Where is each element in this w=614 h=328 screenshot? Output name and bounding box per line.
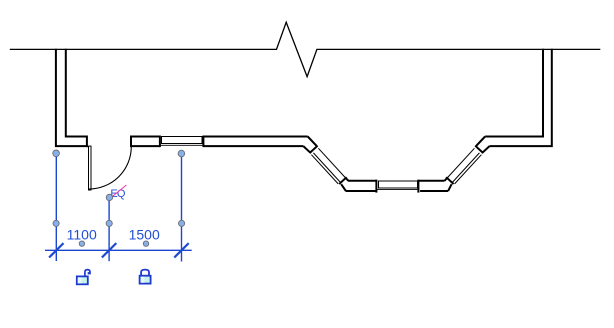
witness line 3 (window centre) <box>181 154 183 262</box>
bay left diagonal thick wall stub lower inner <box>345 178 348 181</box>
diagonal window W2 lower cap <box>339 177 346 184</box>
svg-text:1100: 1100 <box>67 226 97 242</box>
svg-text:1500: 1500 <box>129 226 160 242</box>
diagonal window W4 sill line <box>455 155 482 184</box>
wall segment window to bay, bottom face <box>203 145 303 147</box>
witness line 1 (wall face) <box>55 153 57 261</box>
window W1 frame <box>162 137 203 144</box>
diagonal window W4 glass line <box>453 153 480 182</box>
grip dot witness3 top <box>178 150 185 157</box>
window W3 left cap <box>375 180 377 193</box>
grip dot witness1 top <box>53 150 60 157</box>
break line (view cut line with zigzag) <box>10 22 601 76</box>
window W1 left cap <box>159 136 161 148</box>
wall segment door to window bottom face <box>131 145 160 147</box>
grip dot witness3 mid <box>179 220 185 226</box>
diagonal window W4 lower cap <box>446 177 453 184</box>
tick mark 3 <box>174 243 188 257</box>
bay right diagonal thick wall stub upper outer <box>482 146 490 153</box>
diagonal window W4 inner face line <box>448 148 475 177</box>
grip dot witness1 mid <box>53 220 59 226</box>
bay bottom wall top face <box>348 180 445 182</box>
diagonal window W2 upper cap <box>310 146 317 153</box>
bay right diagonal thick wall stub lower outer <box>448 184 452 191</box>
door left jamb cap <box>86 136 88 148</box>
diagonal window W4 upper cap <box>475 146 482 153</box>
witness line 2 (door centre, EQ) <box>108 197 110 261</box>
window W3 sill line <box>377 189 419 191</box>
dimension line <box>45 249 192 251</box>
wall segment bay to right wall, bottom face + right wall outer face <box>490 49 552 146</box>
bay left diagonal thick wall stub upper inner <box>308 137 317 147</box>
grip dot EQ witness <box>106 194 112 200</box>
diagonal window W2 sill line <box>311 155 338 184</box>
wall segment door to window top face <box>131 136 160 138</box>
left wall inner face <box>66 49 87 137</box>
window W3 frame <box>379 181 418 188</box>
tick mark 1 <box>49 243 63 257</box>
locked padlock icon <box>140 270 151 284</box>
bay right diagonal thick wall stub lower inner <box>445 178 448 181</box>
door swing arc <box>89 147 131 189</box>
bay left diagonal thick wall stub upper outer <box>303 146 311 153</box>
unlocked padlock icon <box>77 270 90 285</box>
door leaf <box>89 146 92 190</box>
bay right diagonal thick wall stub upper inner <box>476 137 485 147</box>
window W1 sill line <box>161 144 203 146</box>
wall segment window to bay, top face <box>203 136 307 138</box>
grip dot witness2 mid <box>106 220 112 226</box>
bay bottom wall bottom face <box>346 190 448 192</box>
door right jamb cap <box>130 136 132 148</box>
grip dot text 1100 <box>79 241 84 246</box>
window W1 right cap <box>202 136 204 148</box>
window W3 right cap <box>417 180 419 193</box>
diagonal window W2 inner face line <box>318 148 345 177</box>
tick mark 2 <box>102 243 116 257</box>
wall segment bay to right wall, top face + right wall inner face <box>485 49 543 137</box>
diagonal window W2 glass line <box>313 153 340 182</box>
left wall outer face <box>56 49 88 146</box>
EQ strike slash <box>108 185 127 200</box>
grip dot text 1500 <box>143 241 148 246</box>
bay left diagonal thick wall stub lower outer <box>341 184 346 191</box>
